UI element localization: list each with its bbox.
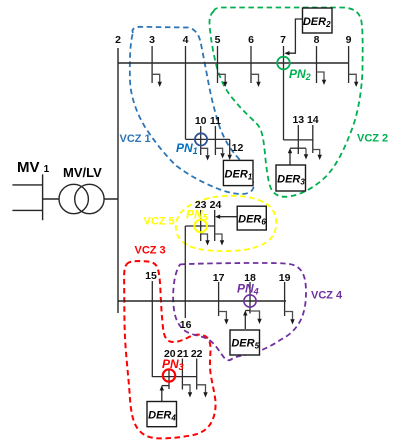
svg-text:5: 5 [215, 34, 221, 46]
svg-text:4: 4 [183, 34, 189, 46]
svg-text:19: 19 [279, 272, 291, 284]
svg-text:VCZ 3: VCZ 3 [135, 245, 166, 257]
svg-text:12: 12 [232, 142, 244, 154]
svg-text:17: 17 [213, 272, 225, 284]
svg-text:16: 16 [180, 319, 192, 331]
svg-text:22: 22 [191, 348, 203, 360]
svg-text:3: 3 [149, 34, 155, 46]
svg-text:20: 20 [164, 348, 176, 360]
svg-text:18: 18 [244, 272, 256, 284]
svg-text:VCZ 1: VCZ 1 [120, 133, 151, 145]
svg-text:PN2: PN2 [289, 67, 311, 82]
svg-text:7: 7 [280, 34, 286, 46]
svg-text:10: 10 [195, 115, 207, 127]
svg-text:VCZ 5: VCZ 5 [144, 216, 175, 228]
svg-text:13: 13 [292, 114, 304, 126]
svg-text:VCZ 2: VCZ 2 [357, 133, 388, 145]
svg-text:2: 2 [115, 34, 121, 46]
svg-text:11: 11 [210, 115, 221, 127]
svg-text:21: 21 [177, 348, 189, 360]
svg-text:8: 8 [314, 34, 320, 46]
svg-text:6: 6 [248, 34, 254, 46]
svg-text:24: 24 [210, 199, 222, 211]
svg-text:MV/LV: MV/LV [63, 165, 102, 180]
svg-text:VCZ 4: VCZ 4 [311, 290, 343, 302]
svg-text:14: 14 [307, 114, 319, 126]
svg-text:15: 15 [145, 270, 157, 282]
svg-text:MV 1: MV 1 [17, 159, 50, 176]
svg-text:9: 9 [346, 34, 352, 46]
svg-text:PN1: PN1 [176, 141, 198, 156]
svg-text:23: 23 [195, 199, 207, 211]
